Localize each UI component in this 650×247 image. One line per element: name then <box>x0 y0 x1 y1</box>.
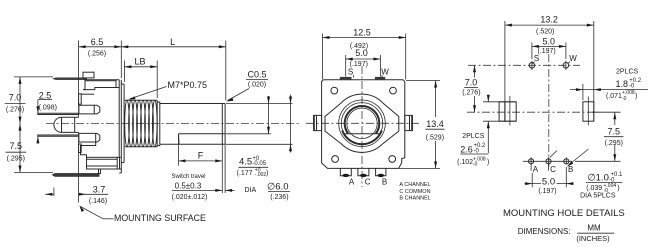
bushing circles <box>339 100 386 147</box>
dimension L <box>121 37 226 101</box>
bottom tab plate <box>52 174 99 177</box>
label C0.5 chamfer <box>226 70 268 102</box>
svg-text:): ) <box>617 185 619 192</box>
svg-text:3.7: 3.7 <box>93 184 106 194</box>
label M7*P0.75 <box>128 80 207 100</box>
svg-text:A: A <box>533 165 539 174</box>
corner rivets <box>331 87 397 162</box>
svg-text:(.071: (.071 <box>606 93 622 100</box>
top tab <box>83 72 94 78</box>
lower pin <box>38 135 79 136</box>
bottom mount leg <box>99 169 101 174</box>
svg-text:C COMMON: C COMMON <box>399 189 430 195</box>
svg-text:-0: -0 <box>622 96 627 102</box>
dimension 7.5 (mounting view) <box>575 112 625 161</box>
svg-text:7.5: 7.5 <box>608 126 621 136</box>
dimension 2.5 <box>36 91 57 144</box>
dimension 6.5 <box>79 37 122 78</box>
threaded bushing M7 <box>125 100 158 147</box>
svg-text:C: C <box>365 178 371 187</box>
svg-text:13.4: 13.4 <box>426 119 444 129</box>
upper pin <box>38 113 79 114</box>
side slots <box>499 96 594 125</box>
svg-text:C: C <box>550 165 556 174</box>
svg-text:M7*P0.75: M7*P0.75 <box>168 80 208 90</box>
centerlines (front view) <box>306 66 420 187</box>
dimension DIA 6.0 <box>245 95 293 201</box>
dimension 13.4 <box>406 81 446 169</box>
svg-text:2.5: 2.5 <box>39 91 52 101</box>
top tabs S W (front view) <box>340 68 389 80</box>
centerline (side view) <box>46 123 300 125</box>
svg-text:5.0: 5.0 <box>355 48 368 58</box>
dimension 5.0 top (mounting view) <box>532 36 566 59</box>
svg-text:): ) <box>266 170 268 177</box>
upper terminal bullet <box>79 105 94 114</box>
svg-text:(.295): (.295) <box>7 156 25 163</box>
svg-text:2PLCS: 2PLCS <box>616 69 639 76</box>
svg-text:(.295): (.295) <box>605 140 623 147</box>
svg-text:A: A <box>349 178 355 187</box>
top-right corner box <box>116 80 119 88</box>
svg-text:12.5: 12.5 <box>353 28 371 38</box>
dimension LB <box>124 57 157 99</box>
svg-text:(.197): (.197) <box>538 188 556 195</box>
lower terminal bullet <box>79 133 96 142</box>
svg-text:(.529): (.529) <box>426 135 444 142</box>
dimension 3.7 <box>45 184 108 205</box>
svg-text:2.6: 2.6 <box>460 144 473 154</box>
dimension 5.0 bottom (mounting view) <box>525 167 574 195</box>
svg-text:(.197): (.197) <box>537 48 555 55</box>
holes S and W <box>529 54 577 70</box>
svg-text:): ) <box>487 159 489 166</box>
shaft flat <box>179 133 226 135</box>
svg-text:1.8: 1.8 <box>616 79 629 89</box>
dimension 4.5 flat <box>237 96 270 178</box>
dimension 7.0 left <box>5 77 53 124</box>
shaft flat chord <box>344 133 380 135</box>
dimension 7.5 left <box>6 124 54 173</box>
svg-text:-0: -0 <box>473 162 478 168</box>
svg-text:B: B <box>568 165 573 174</box>
svg-text:(.020±.012): (.020±.012) <box>172 194 208 201</box>
svg-text:(.102: (.102 <box>457 159 473 166</box>
side tabs (front view) <box>314 115 413 130</box>
svg-text:(.256): (.256) <box>88 51 106 58</box>
svg-text:(.020): (.020) <box>248 82 266 89</box>
svg-text:-0: -0 <box>629 84 635 90</box>
svg-text:C0.5: C0.5 <box>247 70 266 80</box>
top-left steps <box>83 79 85 89</box>
svg-text:13.2: 13.2 <box>540 14 558 24</box>
svg-text:∅6.0: ∅6.0 <box>267 182 288 193</box>
svg-text:7.0: 7.0 <box>465 77 478 87</box>
svg-text:5.0: 5.0 <box>543 36 556 46</box>
dimension 12.5 <box>323 28 406 80</box>
svg-text:7.0: 7.0 <box>9 92 22 102</box>
svg-text:L: L <box>170 37 175 47</box>
rear switch bump <box>54 117 79 132</box>
svg-text:(.197): (.197) <box>350 61 368 68</box>
svg-text:(.520): (.520) <box>536 28 554 35</box>
svg-text:A CHANNEL: A CHANNEL <box>399 182 430 188</box>
upper left column <box>79 94 82 104</box>
bushing end collar <box>157 102 160 146</box>
svg-text:-.002: -.002 <box>255 172 267 178</box>
svg-text:MM: MM <box>587 224 601 233</box>
svg-text:MOUNTING HOLE DETAILS: MOUNTING HOLE DETAILS <box>503 208 625 219</box>
front plate <box>118 88 120 158</box>
front body outline <box>322 80 405 169</box>
shaft end (pressed position) <box>221 104 223 145</box>
shaft top <box>160 103 225 105</box>
svg-text:(.236): (.236) <box>270 194 288 201</box>
svg-text:F: F <box>198 151 204 161</box>
bottom staircase <box>81 142 96 157</box>
svg-text:(.276): (.276) <box>6 107 24 114</box>
svg-text:DIA 5PLCS: DIA 5PLCS <box>580 192 616 199</box>
svg-text:DIMENSIONS:: DIMENSIONS: <box>518 227 571 236</box>
svg-text:LB: LB <box>134 57 145 67</box>
svg-text:(INCHES): (INCHES) <box>576 234 610 243</box>
svg-text:5.0: 5.0 <box>542 176 555 187</box>
dimension 13.2 <box>505 14 594 121</box>
svg-text:W: W <box>381 68 389 77</box>
svg-text:B: B <box>382 178 387 187</box>
holes A C B <box>523 157 573 174</box>
svg-text:MOUNTING SURFACE: MOUNTING SURFACE <box>114 213 206 223</box>
svg-text:(.146): (.146) <box>89 198 107 205</box>
shaft end face <box>224 104 226 145</box>
svg-text:(.098): (.098) <box>39 104 57 111</box>
channel legend <box>399 182 430 202</box>
body (side view outline) <box>38 41 124 203</box>
shaft bottom <box>160 143 179 145</box>
svg-text:-0.05: -0.05 <box>252 161 266 167</box>
label MOUNTING SURFACE <box>79 205 206 223</box>
svg-text:B CHANNEL: B CHANNEL <box>399 196 430 202</box>
bottom pins (front view) <box>340 168 387 186</box>
svg-text:Switch travel: Switch travel <box>171 174 205 180</box>
svg-text:(.276): (.276) <box>462 89 480 96</box>
round boss outline <box>325 94 399 152</box>
leader DIA 1.0 <box>550 149 623 199</box>
shaft <box>157 102 225 146</box>
svg-text:4.5: 4.5 <box>239 157 252 168</box>
dimension 7.0 (mounting view) <box>462 65 480 112</box>
centerlines (mounting view) <box>467 54 598 168</box>
top plate <box>53 78 86 80</box>
svg-text:W: W <box>569 54 577 63</box>
svg-text:(.039: (.039 <box>586 185 602 192</box>
svg-text:7.5: 7.5 <box>10 141 23 151</box>
front body bottom edge extension <box>399 167 440 169</box>
bottom terminal block <box>87 157 118 169</box>
switch travel dimension <box>171 144 234 201</box>
svg-text:6.5: 6.5 <box>91 37 104 47</box>
dimension 1.8 2PLCS <box>570 69 648 103</box>
svg-text:S: S <box>348 68 353 77</box>
svg-text:0.5±0.3: 0.5±0.3 <box>175 181 202 190</box>
title MOUNTING HOLE DETAILS <box>503 208 625 219</box>
dimension 2.6 2PLCS <box>457 95 516 168</box>
svg-text:): ) <box>635 93 637 100</box>
lower left column <box>79 144 82 153</box>
legend DIMENSIONS MM/INCHES <box>518 224 615 244</box>
svg-text:∅1.0: ∅1.0 <box>587 172 608 183</box>
body back face / mounting extension line <box>78 41 80 118</box>
svg-text:(.177: (.177 <box>237 170 253 177</box>
dimension F <box>179 135 223 166</box>
shaft end extension lines <box>226 104 293 145</box>
dimension 5.0 (front view) <box>346 48 381 76</box>
svg-text:DIA: DIA <box>245 187 257 194</box>
body top edge <box>85 79 119 81</box>
svg-text:2PLCS: 2PLCS <box>462 133 485 140</box>
